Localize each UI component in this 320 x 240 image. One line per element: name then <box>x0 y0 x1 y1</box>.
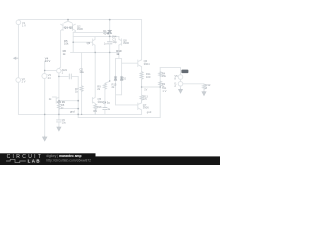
wire cap to ground <box>58 122 60 126</box>
svg-text:Q1 Q2: Q1 Q2 <box>64 26 73 30</box>
wire bias rung top <box>116 58 122 60</box>
diode D on C8 <box>108 30 112 33</box>
wire feedback column C11 <box>159 68 161 118</box>
wire meter2 to ground <box>180 86 182 89</box>
svg-text:1V: 1V <box>144 89 147 92</box>
wire C8 mid <box>109 33 111 41</box>
transistor Q3 <box>93 39 95 46</box>
wire Q6 emitter <box>141 67 143 72</box>
resistor R emitter <box>140 72 143 87</box>
source V1 <box>16 20 21 25</box>
resistor R below Q5 <box>94 104 97 114</box>
wire Q8 emitter down <box>118 45 120 59</box>
wire corner to R12 <box>203 83 205 86</box>
svg-text:24 V: 24 V <box>45 59 51 63</box>
wire C7 column <box>94 52 96 97</box>
footer logo box <box>0 153 96 165</box>
wire bias column right <box>121 59 123 95</box>
wire rail2 <box>78 117 160 119</box>
svg-text:http://circuitlab.com/c6ww872: http://circuitlab.com/c6ww872 <box>46 159 91 163</box>
resistor R emitter lower <box>140 95 143 103</box>
capacitor C4 plates <box>103 108 107 110</box>
svg-text:LAB: LAB <box>28 159 41 164</box>
wire Q4 left stub <box>52 96 56 98</box>
wire C3 below circle <box>58 73 60 115</box>
wire C2 top <box>44 61 46 73</box>
wire Q8 collector up to B <box>118 36 120 39</box>
wire stub to meter1 <box>180 68 182 75</box>
svg-text:3906: 3906 <box>77 27 83 31</box>
wire C8 below H2 with jog <box>105 52 110 83</box>
wire Q3 collector up to B <box>94 36 96 39</box>
junction dots <box>44 19 161 116</box>
transistor Q6 <box>138 60 142 67</box>
wire bottom rail <box>18 113 141 115</box>
wire input column upper <box>17 25 19 78</box>
svg-text:gnd: gnd <box>147 110 152 114</box>
wire Q7 base corner <box>136 104 137 106</box>
transistor Q4 <box>56 97 59 103</box>
ground arrow left <box>43 136 47 141</box>
wire between meters <box>180 79 182 81</box>
source V2 <box>16 78 21 83</box>
wire jog column down <box>104 89 106 107</box>
svg-text:0.5: 0.5 <box>143 98 147 101</box>
wire bias rung bottom <box>116 94 122 96</box>
svg-text:10k: 10k <box>64 42 69 46</box>
svg-text:gnd: gnd <box>70 110 75 114</box>
svg-text:100: 100 <box>146 75 151 79</box>
meter circle M1 <box>178 75 183 80</box>
wire Q6 collector up <box>141 20 143 60</box>
wire cap branch y76.4 <box>59 75 78 77</box>
svg-text:1 V: 1 V <box>162 89 166 93</box>
resistor R on C11 lower <box>159 81 162 86</box>
ground arrow below cap <box>57 126 61 130</box>
ammeter circle <box>57 69 61 73</box>
wire Q4 base branch <box>59 100 78 102</box>
svg-text:10u: 10u <box>79 70 84 74</box>
ground symbols <box>14 57 206 141</box>
svg-text:2 V: 2 V <box>22 79 26 83</box>
resistor R on jog column <box>103 84 106 90</box>
transistor Q2 <box>72 24 75 31</box>
transistor Q7 <box>138 103 142 110</box>
wire Q3 emitter to H2 <box>94 45 96 52</box>
wire output node H <box>142 86 161 88</box>
wire cap to rail <box>104 110 106 115</box>
wire branch y70.4 <box>45 69 57 71</box>
wire top H to circles <box>160 67 180 69</box>
logo LAB text <box>27 159 41 163</box>
svg-text:Q3: Q3 <box>87 41 91 45</box>
ground arrow R12 <box>202 91 206 95</box>
resistor R12 <box>203 84 206 89</box>
wire B branch <box>73 35 119 37</box>
footer bar <box>0 156 220 165</box>
wire top rail H1 <box>18 19 141 21</box>
capacitor C plates <box>69 74 71 79</box>
dark node label <box>181 70 188 74</box>
transistor Q8 <box>119 39 122 46</box>
logo wave glyph <box>6 159 26 162</box>
wire lower base tap <box>116 104 137 106</box>
resistor R on C11 upper <box>159 72 162 77</box>
input port arrow <box>14 57 19 59</box>
svg-text:C4 1u: C4 1u <box>103 100 111 104</box>
wire feedback column <box>77 76 79 114</box>
wire mirror stub <box>64 20 72 23</box>
wire C2 bottom <box>44 79 46 136</box>
source V3 <box>42 74 47 79</box>
capacitor C below rail <box>57 120 62 122</box>
svg-text:digikey | marantec amp: digikey | marantec amp <box>46 154 81 158</box>
wire Q7 emitter up <box>141 87 143 95</box>
wire C3 collector Q1 down with jog <box>59 31 61 69</box>
svg-text:3904: 3904 <box>144 62 150 66</box>
resistor R below Q4 <box>58 104 61 115</box>
wire C8 low <box>109 44 111 52</box>
svg-text:15k: 15k <box>162 74 167 78</box>
diode bias marks <box>114 77 122 80</box>
svg-text:10u: 10u <box>62 122 67 125</box>
svg-text:1 V: 1 V <box>22 24 26 28</box>
svg-text:3906: 3906 <box>123 41 129 45</box>
transistor Q5 marks <box>92 97 95 103</box>
wire Q7 collector down <box>141 110 143 115</box>
wire input column lower <box>17 82 19 114</box>
svg-text:3906: 3906 <box>143 106 149 110</box>
wire mirror base tie <box>63 26 73 28</box>
ground arrow meters <box>179 89 183 93</box>
wire C3 below rail cap <box>58 114 60 119</box>
wire bias column left <box>115 59 117 105</box>
wire H2 <box>71 51 119 53</box>
wire R12 to ground <box>203 89 205 91</box>
wire A branch <box>73 31 108 33</box>
wire C8 top <box>109 20 111 31</box>
svg-text:10p: 10p <box>112 40 117 44</box>
wire Q3 base <box>73 41 92 43</box>
resistor R7 <box>80 86 83 92</box>
wire lower branch <box>64 108 78 110</box>
svg-text:24: 24 <box>48 76 51 80</box>
svg-text:R16: R16 <box>97 105 102 109</box>
wire upper base tap <box>122 62 138 64</box>
capacitor on C8 <box>107 42 112 44</box>
svg-text:R9: R9 <box>93 109 97 113</box>
wire R column from H2 <box>81 52 83 114</box>
wire C5 column right mirror <box>73 31 75 53</box>
wire lower right H <box>183 83 204 85</box>
transistor Q1 <box>61 24 63 31</box>
wire rail2 riser <box>77 114 79 117</box>
meter circle M2 <box>178 82 183 87</box>
schematic labels <box>22 21 211 125</box>
svg-text:4148: 4148 <box>103 32 109 36</box>
